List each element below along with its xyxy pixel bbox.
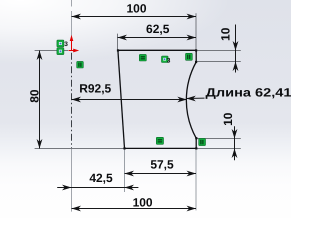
- sketch bottom edge E-F: [125, 147, 197, 149]
- svg-text:10: 10: [219, 27, 233, 41]
- dimension 62,5: left arrow: [118, 35, 128, 41]
- extension line from vertex F down: [124, 148, 126, 192]
- svg-text:10: 10: [221, 112, 235, 126]
- dimension 42,5: left outside arrow pointing right: [62, 185, 72, 191]
- svg-text:100: 100: [133, 195, 153, 209]
- dimension R92,5: left arrow pointing left: [72, 97, 82, 103]
- vertex point C: [195, 61, 197, 63]
- relation icon 1 (coincident, near origin top): [57, 40, 64, 47]
- extension line from vertex A up: [117, 34, 119, 51]
- relation icon 5 (coincident, mid top): [162, 56, 169, 62]
- dimension 10 top: line: [235, 25, 237, 73]
- vertex point E: [195, 147, 197, 149]
- sketch right vertical edge B-C: [195, 50, 197, 62]
- dimension R92,5: leader line: [72, 99, 187, 101]
- dimension 10 top: lower arrow pointing up: [233, 62, 239, 72]
- relation icon 7 (horizontal, bottom edge): [156, 137, 163, 144]
- dimension 100 bottom: right arrow: [187, 206, 197, 212]
- vertex point F: [123, 147, 125, 149]
- dimension 42,5: line: [57, 187, 138, 189]
- dimension 42,5: right outside arrow pointing left: [125, 185, 135, 191]
- relation icon 4 (horizontal, top edge): [139, 54, 146, 61]
- dimension 100 top: right arrow: [187, 14, 197, 20]
- dimension 10 top: upper arrow pointing down: [233, 41, 239, 51]
- dimension 62,5: line: [118, 37, 197, 39]
- relation icon 3 (vertical, below origin): [77, 61, 84, 68]
- dimension 62,5: right arrow: [187, 35, 197, 41]
- svg-text:R92,5: R92,5: [79, 81, 111, 95]
- dimension 10 bottom: line: [234, 126, 236, 160]
- dimension 10 bottom: upper arrow pointing down: [232, 129, 238, 139]
- dimension Длина 62,41: leader line: [186, 97, 204, 99]
- svg-text:100: 100: [126, 2, 146, 16]
- origin horizontal red arrow: [69, 49, 80, 53]
- extension line: centerline lower gray extension: [71, 148, 73, 211]
- dimension 10 bottom: lower arrow pointing up: [232, 149, 238, 159]
- extension line origin level left (for 80 top): [35, 50, 68, 52]
- sketch right vertical edge D-E: [195, 138, 197, 148]
- vertex point D: [195, 137, 197, 139]
- relation icon 2 (coincident, near origin bottom): [57, 48, 64, 55]
- extension line bottom edge level left (for 80 bottom): [35, 148, 125, 150]
- svg-text:42,5: 42,5: [89, 171, 113, 185]
- extension line from vertex E down: [195, 148, 197, 210]
- svg-text:57,5: 57,5: [150, 157, 174, 171]
- svg-text:80: 80: [28, 89, 42, 103]
- extension line: centerline upper gray extension: [71, 0, 73, 50]
- dimension 80: top arrow pointing up: [37, 51, 43, 61]
- relation icon 6 (vertical, edge B-C): [186, 53, 193, 60]
- sketch top edge A-B: [118, 49, 196, 51]
- dimension 100 top: line: [72, 16, 197, 18]
- dimension 100 bottom: left arrow: [72, 206, 82, 212]
- dimension 100 top: left arrow: [72, 14, 82, 20]
- extension line from vertex B right: [196, 50, 241, 52]
- dimension 57,5: right arrow: [187, 171, 197, 177]
- sketch arc C-D (R92,5): [186, 62, 196, 138]
- extension line from vertex C right: [196, 61, 241, 63]
- relation icon 8 (vertical, edge D-E): [199, 138, 206, 145]
- sketch left edge F-A: [118, 50, 125, 148]
- centerline construction line (dash-dot): [71, 50, 73, 148]
- svg-text:3: 3: [64, 41, 68, 48]
- dimension 100 bottom: line: [72, 208, 197, 210]
- extension line from vertex D right: [196, 138, 241, 140]
- dimension 80: bottom arrow pointing down: [37, 139, 43, 149]
- dimension Длина 62,41: arrow pointing left at arc: [186, 96, 196, 102]
- svg-text:3: 3: [167, 57, 171, 64]
- vertex point A: [117, 49, 119, 51]
- dimension 57,5: left arrow: [125, 171, 135, 177]
- svg-text:62,5: 62,5: [146, 22, 170, 36]
- svg-text:Длина 62,41: Длина 62,41: [206, 86, 292, 100]
- extension line from vertex B up: [195, 13, 197, 50]
- origin vertical red arrow: [70, 35, 74, 51]
- extension line from vertex E right: [196, 148, 241, 150]
- dimension R92,5: right arrow pointing right at arc: [177, 97, 187, 103]
- dimension 80: line: [39, 51, 41, 149]
- vertex point B: [195, 49, 197, 51]
- dimension 57,5: line: [125, 173, 197, 175]
